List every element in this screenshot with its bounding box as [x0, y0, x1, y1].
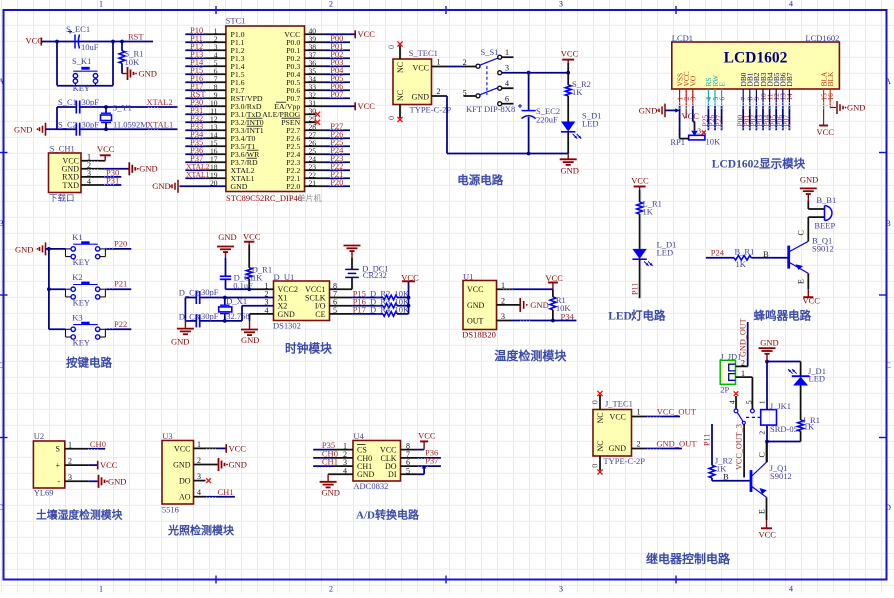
- svg-text:GND: GND: [139, 69, 157, 79]
- svg-text:RP1: RP1: [670, 137, 685, 147]
- svg-text:DI: DI: [388, 470, 397, 479]
- svg-text:B: B: [0, 219, 4, 228]
- svg-text:VCC: VCC: [759, 530, 777, 540]
- svg-text:P34: P34: [561, 311, 575, 321]
- svg-text:P24: P24: [711, 248, 725, 258]
- svg-text:P11: P11: [630, 283, 639, 295]
- svg-text:10uF: 10uF: [81, 42, 99, 52]
- svg-text:VCC: VCC: [401, 272, 419, 282]
- svg-text:10K: 10K: [706, 137, 722, 147]
- svg-text:P22: P22: [114, 319, 127, 329]
- svg-text:VCC: VCC: [243, 231, 261, 241]
- svg-text:KFT DIP-8X8: KFT DIP-8X8: [466, 104, 515, 114]
- svg-text:LCD1602: LCD1602: [724, 50, 788, 67]
- svg-text:温度检测模块: 温度检测模块: [494, 348, 567, 363]
- svg-text:TXD: TXD: [63, 181, 80, 190]
- svg-text:土壤湿度检测模块: 土壤湿度检测模块: [36, 507, 123, 521]
- svg-text:VCC: VCC: [358, 101, 376, 111]
- svg-text:A/D: A/D: [356, 509, 375, 521]
- svg-text:4: 4: [789, 0, 793, 9]
- svg-text:VCC: VCC: [610, 413, 626, 422]
- svg-text:LCD1: LCD1: [672, 33, 693, 43]
- svg-text:VCC: VCC: [467, 285, 483, 294]
- svg-text:GND: GND: [278, 310, 296, 319]
- svg-text:LED: LED: [657, 247, 674, 257]
- svg-text:S_C1: S_C1: [58, 97, 77, 107]
- svg-text:LED: LED: [582, 119, 599, 129]
- svg-text:蜂鸣器电路: 蜂鸣器电路: [754, 309, 812, 323]
- svg-text:E: E: [797, 279, 806, 284]
- svg-text:GND: GND: [171, 337, 189, 347]
- svg-text:灯电路: 灯电路: [631, 309, 666, 323]
- svg-text:DS18B20: DS18B20: [462, 330, 496, 340]
- svg-text:B_B1: B_B1: [816, 195, 836, 205]
- svg-text:GND: GND: [14, 124, 32, 134]
- svg-text:单片机: 单片机: [298, 193, 322, 203]
- svg-text:2: 2: [741, 358, 745, 367]
- svg-text:LCD1602: LCD1602: [805, 33, 839, 43]
- svg-text:14: 14: [786, 93, 794, 101]
- svg-text:S: S: [56, 445, 60, 454]
- svg-text:CH0: CH0: [90, 439, 106, 449]
- svg-text:按键电路: 按键电路: [66, 356, 112, 370]
- svg-text:GND: GND: [760, 337, 778, 347]
- svg-text:J_TEC1: J_TEC1: [605, 399, 633, 409]
- svg-text:C: C: [0, 361, 4, 370]
- svg-text:AO: AO: [179, 493, 191, 502]
- svg-text:VCC: VCC: [97, 144, 115, 154]
- svg-text:光照检测模块: 光照检测模块: [167, 523, 235, 537]
- svg-text:K2: K2: [72, 272, 82, 282]
- svg-text:VO: VO: [689, 75, 698, 86]
- svg-text:BEEP: BEEP: [814, 221, 835, 231]
- svg-text:C: C: [885, 361, 890, 370]
- svg-text:LCD1602显示模块: LCD1602显示模块: [712, 157, 806, 171]
- svg-text:VCC: VCC: [682, 111, 700, 121]
- svg-text:DS1302: DS1302: [273, 321, 301, 331]
- svg-text:2: 2: [329, 585, 333, 594]
- svg-text:P17: P17: [353, 305, 366, 315]
- svg-text:SRD-05: SRD-05: [770, 424, 798, 434]
- svg-text:6: 6: [718, 97, 726, 101]
- svg-text:CE: CE: [315, 310, 325, 319]
- svg-text:LED: LED: [608, 311, 632, 323]
- svg-text:XTAL1: XTAL1: [147, 120, 173, 130]
- svg-text:C: C: [797, 230, 806, 235]
- svg-text:D_C2: D_C2: [179, 288, 199, 298]
- svg-text:GND: GND: [241, 335, 259, 345]
- svg-text:GND: GND: [357, 470, 375, 479]
- svg-text:DO: DO: [179, 477, 191, 486]
- svg-text:GND: GND: [639, 105, 657, 115]
- svg-text:3: 3: [690, 97, 698, 101]
- svg-text:6: 6: [505, 95, 509, 104]
- svg-text:P11: P11: [703, 434, 712, 446]
- svg-text:30pF: 30pF: [82, 97, 100, 107]
- svg-text:E: E: [717, 82, 726, 87]
- svg-text:时钟模块: 时钟模块: [285, 341, 332, 355]
- svg-text:4: 4: [505, 79, 509, 88]
- svg-text:S9012: S9012: [770, 471, 792, 481]
- svg-text:3: 3: [559, 0, 563, 9]
- svg-text:E: E: [757, 509, 766, 514]
- svg-text:P21: P21: [114, 279, 127, 289]
- svg-text:S_S1: S_S1: [481, 47, 499, 57]
- svg-text:S_EC1: S_EC1: [66, 24, 90, 34]
- svg-text:30pF: 30pF: [201, 287, 219, 297]
- svg-text:D_X1: D_X1: [226, 296, 247, 306]
- svg-text:LED: LED: [809, 373, 826, 383]
- svg-text:32.768: 32.768: [226, 311, 249, 321]
- svg-text:U2: U2: [34, 431, 44, 441]
- svg-text:CH1: CH1: [218, 487, 234, 497]
- svg-text:+: +: [55, 461, 60, 470]
- svg-text:下载口: 下载口: [49, 193, 75, 203]
- svg-text:2: 2: [329, 0, 333, 9]
- svg-text:P20: P20: [114, 238, 127, 248]
- svg-text:VCC: VCC: [817, 127, 835, 137]
- svg-text:1: 1: [505, 48, 509, 57]
- svg-text:VCC: VCC: [229, 443, 247, 453]
- svg-text:4: 4: [789, 585, 793, 594]
- svg-text:0.1uF: 0.1uF: [233, 281, 253, 291]
- svg-text:P2.0: P2.0: [286, 182, 300, 191]
- svg-text:1: 1: [99, 585, 103, 594]
- svg-text:1K: 1K: [643, 207, 654, 217]
- svg-text:D: D: [0, 503, 4, 512]
- svg-text:CH1: CH1: [322, 457, 338, 467]
- svg-text:RST: RST: [128, 32, 144, 42]
- svg-text:NC: NC: [396, 90, 405, 101]
- svg-text:VCC_OUT: VCC_OUT: [657, 407, 697, 417]
- svg-text:GND: GND: [467, 301, 485, 310]
- svg-text:STC89C52RC_DIP40: STC89C52RC_DIP40: [226, 193, 302, 203]
- svg-text:KEY: KEY: [73, 257, 90, 267]
- svg-text:A: A: [0, 77, 4, 86]
- svg-text:2: 2: [637, 440, 641, 449]
- svg-text:GND_OUT: GND_OUT: [738, 318, 747, 357]
- svg-text:DB7: DB7: [785, 72, 794, 86]
- svg-text:VCC: VCC: [100, 460, 118, 470]
- svg-text:1: 1: [637, 408, 641, 417]
- svg-text:2P: 2P: [720, 384, 729, 394]
- svg-text:S_K1: S_K1: [72, 56, 91, 66]
- svg-text:0: 0: [591, 400, 600, 404]
- svg-text:GND: GND: [561, 166, 579, 176]
- svg-text:VCC: VCC: [413, 64, 429, 73]
- svg-text:11.0592M: 11.0592M: [113, 119, 148, 129]
- svg-text:3: 3: [559, 585, 563, 594]
- svg-text:KEY: KEY: [73, 83, 90, 93]
- svg-text:GND: GND: [139, 164, 157, 174]
- svg-text:10K: 10K: [125, 57, 141, 67]
- svg-text:CR232: CR232: [363, 270, 387, 280]
- svg-text:电源电路: 电源电路: [457, 173, 503, 187]
- svg-text:S_C2: S_C2: [58, 119, 77, 129]
- svg-text:KEY: KEY: [73, 298, 90, 308]
- svg-text:GND: GND: [322, 488, 340, 498]
- svg-text:GND_OUT: GND_OUT: [656, 439, 697, 449]
- svg-text:1K: 1K: [572, 87, 583, 97]
- svg-text:U1: U1: [463, 272, 473, 282]
- svg-text:B: B: [763, 249, 769, 259]
- svg-text:5: 5: [745, 400, 754, 404]
- svg-text:A: A: [885, 77, 891, 86]
- svg-text:ADC0832: ADC0832: [353, 481, 388, 491]
- svg-text:GND: GND: [152, 181, 170, 191]
- svg-text:NC: NC: [596, 440, 605, 451]
- svg-text:3: 3: [697, 127, 701, 136]
- svg-text:1K: 1K: [252, 272, 263, 282]
- svg-text:-: -: [57, 477, 60, 486]
- svg-text:0: 0: [387, 45, 396, 49]
- svg-text:D_U1: D_U1: [274, 272, 295, 282]
- svg-text:VCC_OUT_3: VCC_OUT_3: [735, 424, 744, 470]
- svg-text:220uF: 220uF: [536, 115, 558, 125]
- svg-text:GND: GND: [108, 476, 126, 486]
- svg-text:16: 16: [827, 93, 835, 101]
- svg-text:VCC: VCC: [631, 175, 649, 185]
- svg-text:P37: P37: [425, 456, 438, 466]
- svg-text:3: 3: [505, 64, 509, 73]
- svg-text:0: 0: [387, 116, 396, 120]
- svg-text:1: 1: [758, 400, 767, 404]
- svg-text:GND: GND: [229, 460, 247, 470]
- svg-text:TYPE-C-2P: TYPE-C-2P: [410, 105, 452, 115]
- svg-text:GND: GND: [173, 460, 191, 469]
- svg-text:1: 1: [99, 0, 103, 9]
- svg-text:VCC: VCC: [174, 444, 190, 453]
- svg-text:S_Y1: S_Y1: [113, 103, 132, 113]
- svg-text:K3: K3: [72, 312, 82, 322]
- svg-text:VCC: VCC: [418, 430, 436, 440]
- svg-text:D_C3: D_C3: [179, 311, 199, 321]
- svg-text:GND: GND: [800, 175, 818, 185]
- svg-text:1: 1: [437, 58, 441, 67]
- svg-text:1K: 1K: [804, 422, 815, 432]
- svg-text:VCC: VCC: [358, 29, 376, 39]
- svg-text:STC1: STC1: [226, 16, 246, 26]
- svg-text:GND: GND: [218, 232, 236, 242]
- svg-text:4: 4: [728, 400, 737, 404]
- svg-text:20: 20: [210, 178, 218, 187]
- svg-text:继电器控制电路: 继电器控制电路: [646, 551, 731, 566]
- svg-text:VCC: VCC: [545, 273, 563, 283]
- svg-text:S9012: S9012: [812, 244, 834, 254]
- svg-text:GND: GND: [609, 444, 627, 453]
- svg-text:S_CH1: S_CH1: [50, 143, 75, 153]
- svg-text:K1: K1: [72, 232, 82, 242]
- svg-text:B: B: [723, 472, 729, 482]
- svg-text:B: B: [885, 219, 890, 228]
- svg-text:GND: GND: [15, 245, 33, 255]
- svg-text:VCC: VCC: [561, 49, 579, 59]
- svg-text:0: 0: [591, 464, 600, 468]
- svg-text:U4: U4: [353, 431, 364, 441]
- svg-text:NC: NC: [396, 62, 405, 73]
- svg-text:5516: 5516: [162, 505, 179, 515]
- svg-text:U3: U3: [162, 431, 172, 441]
- svg-text:GND: GND: [847, 103, 865, 113]
- svg-text:XTAL2: XTAL2: [147, 97, 173, 107]
- svg-text:1: 1: [741, 369, 745, 378]
- svg-text:转换电路: 转换电路: [375, 507, 420, 521]
- svg-text:VCC: VCC: [803, 296, 821, 306]
- svg-text:1: 1: [678, 129, 682, 137]
- svg-text:S_TEC1: S_TEC1: [409, 48, 438, 58]
- svg-text:OUT: OUT: [467, 316, 484, 325]
- svg-text:GND: GND: [530, 300, 548, 310]
- svg-text:GND: GND: [231, 182, 248, 191]
- svg-text:B_R1: B_R1: [735, 247, 755, 257]
- svg-text:1K: 1K: [736, 259, 747, 269]
- svg-text:KEY: KEY: [73, 338, 90, 348]
- svg-text:30pF: 30pF: [82, 119, 100, 129]
- svg-text:30pF: 30pF: [201, 311, 219, 321]
- svg-text:YL69: YL69: [34, 488, 54, 498]
- svg-text:GND: GND: [412, 92, 430, 101]
- svg-text:NC: NC: [596, 412, 605, 423]
- svg-text:D: D: [885, 503, 891, 512]
- svg-text:2: 2: [757, 431, 766, 435]
- svg-text:2: 2: [463, 58, 467, 67]
- svg-text:2: 2: [437, 87, 441, 96]
- svg-text:BLK: BLK: [826, 71, 835, 86]
- svg-text:TYPE-C-2P: TYPE-C-2P: [603, 456, 645, 466]
- svg-text:J_JK1: J_JK1: [770, 401, 791, 411]
- svg-text:C: C: [757, 452, 766, 457]
